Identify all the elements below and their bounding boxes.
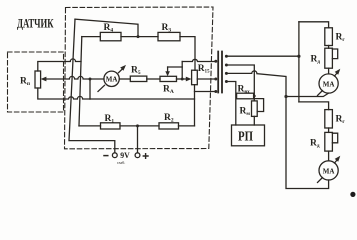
wire Rg1-Rd1	[328, 46, 330, 49]
svg-text:ДАТЧИК: ДАТЧИК	[17, 17, 54, 31]
meter MA bridge	[104, 71, 119, 86]
wire V1	[298, 22, 300, 102]
resistor Rg2	[325, 110, 333, 128]
amplifier dashed box	[65, 7, 214, 149]
wire RA wiper up right	[168, 66, 183, 68]
resistor R5	[130, 76, 147, 81]
wire Rm to RP	[253, 116, 255, 125]
node bridge top	[137, 35, 140, 38]
node battery plus	[136, 124, 139, 127]
box RP	[232, 125, 265, 146]
wiper bracket Rd2	[332, 133, 337, 143]
wire Rg2-Rd2	[328, 128, 330, 132]
svg-text:RА: RА	[163, 85, 174, 96]
terminal plus	[135, 153, 140, 158]
svg-text:МА: МА	[323, 80, 335, 88]
wire H2 to branch2	[299, 102, 329, 110]
resistor R2	[159, 123, 179, 129]
wire R15 bottom	[194, 85, 196, 126]
resistor R3	[158, 32, 180, 40]
svg-text:R5: R5	[131, 66, 141, 77]
wire R3 right down to R15	[180, 37, 195, 71]
node Rvx right	[253, 95, 256, 98]
wire Rd2-MA2	[328, 151, 330, 161]
wire junction down	[89, 79, 91, 99]
wire sensor bottom	[38, 88, 90, 99]
wire R4-R3	[121, 36, 158, 38]
wire left rail L1 (battery minus)	[69, 19, 115, 152]
wire left rail L2	[79, 37, 82, 126]
potentiometer Rп	[35, 71, 41, 88]
node V2 junction	[284, 95, 287, 98]
resistor R1	[101, 123, 121, 129]
potentiometer Rd2	[325, 132, 333, 151]
svg-text:Rг: Rг	[336, 115, 346, 126]
svg-text:Rд: Rд	[310, 139, 320, 150]
node RA junction	[181, 78, 184, 81]
arrow meter MA right bottom	[318, 158, 339, 183]
potentiometer Rm	[252, 101, 258, 117]
wire battery plus	[137, 126, 139, 153]
svg-text:Rм: Rм	[240, 107, 251, 118]
arrow meter MA right top	[318, 71, 339, 96]
wire bottom rail	[79, 125, 195, 127]
wiper bracket Rm	[254, 99, 263, 112]
wiper bracket Rd1	[332, 49, 337, 59]
wire sensor top	[38, 59, 81, 71]
svg-text:Rвх: Rвх	[238, 85, 251, 96]
wire RP3 to V2 to bottom	[226, 71, 328, 189]
bullet mark	[350, 192, 355, 197]
meter MA right bottom	[319, 161, 338, 180]
wire bridge top left	[82, 36, 101, 38]
wire vertical RA-wiper to pin1 wire	[181, 62, 183, 80]
wire RP1 to V1	[226, 55, 299, 57]
wire branch1 top	[299, 22, 329, 28]
wire RA right to R15	[177, 78, 187, 80]
resistor Rvx	[237, 93, 254, 99]
potentiometer RA	[160, 76, 177, 81]
wire top rail	[75, 19, 138, 36]
svg-text:Rг: Rг	[336, 33, 346, 44]
node wiper junction	[89, 78, 92, 81]
svg-text:МА: МА	[323, 167, 335, 175]
wire RP4 to RP box	[226, 82, 235, 126]
arrow wiper R15	[186, 77, 192, 82]
terminal minus	[112, 153, 117, 158]
wire pin2	[197, 78, 215, 80]
svg-text:смб.: смб.	[117, 160, 125, 165]
connector pins left	[214, 60, 217, 63]
resistor Rg1	[325, 28, 333, 46]
arrow wiper Rп	[41, 77, 47, 82]
connector bars	[218, 52, 222, 93]
node V1 junction	[297, 55, 300, 58]
wire RP2 to Rm	[226, 65, 254, 101]
svg-text:R15: R15	[198, 64, 210, 75]
connector pins right	[225, 55, 228, 58]
svg-text:R3: R3	[162, 23, 172, 34]
arrow wiper RA	[167, 67, 169, 72]
potentiometer R15	[192, 70, 198, 85]
wire Rd1-MA1	[328, 68, 330, 74]
sensor dashed box	[8, 52, 64, 112]
wire MA1 bottom to V2	[286, 93, 329, 96]
wire R5 to RA	[147, 78, 160, 80]
wire sensor wiper	[46, 76, 105, 79]
svg-text:R4: R4	[104, 23, 114, 34]
svg-text:Rд: Rд	[311, 55, 321, 66]
wire pin3	[195, 91, 216, 93]
meter MA right top	[319, 74, 338, 93]
svg-text:R2: R2	[164, 113, 174, 124]
svg-text:РП: РП	[238, 129, 253, 144]
svg-text:МА: МА	[106, 76, 118, 84]
resistor R4	[100, 32, 121, 40]
svg-text:Rп: Rп	[20, 77, 31, 88]
wire pin1	[182, 59, 215, 61]
svg-text:9V: 9V	[120, 150, 130, 160]
wire MA to R5	[119, 78, 130, 80]
svg-text:R1: R1	[105, 114, 115, 125]
arrow meter MA	[98, 67, 124, 91]
wire bottom loop	[90, 98, 195, 100]
potentiometer Rd1	[325, 48, 333, 68]
